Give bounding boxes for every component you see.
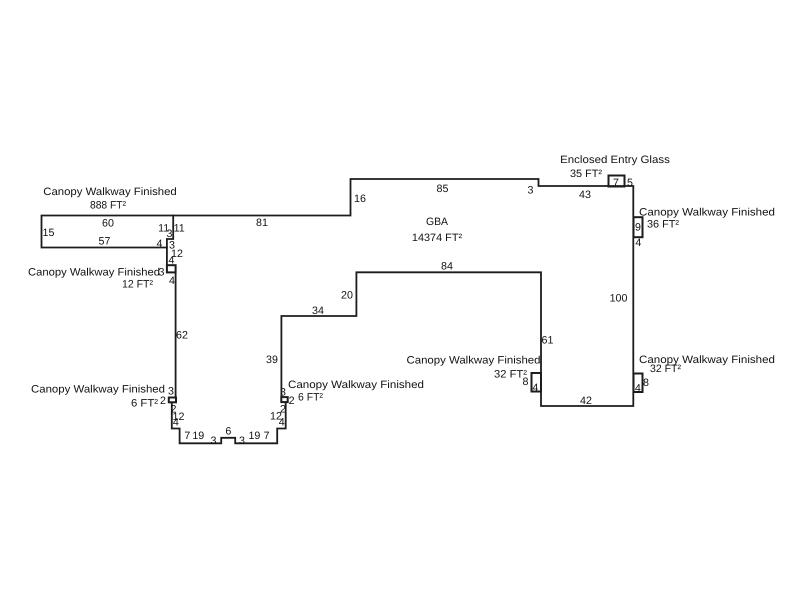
svg-text:100: 100 <box>610 292 628 304</box>
svg-text:32 FT²: 32 FT² <box>650 363 681 375</box>
svg-text:3: 3 <box>528 184 534 196</box>
svg-text:9: 9 <box>635 221 641 233</box>
svg-text:Canopy Walkway Finished: Canopy Walkway Finished <box>28 266 160 278</box>
svg-text:6: 6 <box>225 425 231 437</box>
svg-text:7: 7 <box>184 430 190 442</box>
svg-text:34: 34 <box>312 305 324 317</box>
svg-text:4: 4 <box>532 382 538 394</box>
svg-text:4: 4 <box>173 417 179 429</box>
svg-text:60: 60 <box>102 217 114 229</box>
svg-text:12 FT²: 12 FT² <box>122 278 153 290</box>
svg-text:61: 61 <box>542 334 554 346</box>
svg-text:84: 84 <box>441 260 453 272</box>
svg-text:Canopy Walkway Finished: Canopy Walkway Finished <box>31 383 165 395</box>
svg-text:57: 57 <box>99 235 111 247</box>
svg-text:3: 3 <box>239 435 245 447</box>
svg-text:4: 4 <box>279 416 285 428</box>
svg-text:3: 3 <box>159 266 165 278</box>
svg-text:5: 5 <box>627 177 633 189</box>
svg-text:15: 15 <box>43 227 55 239</box>
svg-text:7: 7 <box>613 177 619 189</box>
svg-text:7: 7 <box>264 430 270 442</box>
svg-text:16: 16 <box>354 193 366 205</box>
svg-text:Enclosed Entry Glass: Enclosed Entry Glass <box>560 154 670 166</box>
svg-text:8: 8 <box>643 377 649 389</box>
svg-text:3: 3 <box>280 386 286 398</box>
svg-text:8: 8 <box>523 376 529 388</box>
svg-text:4: 4 <box>169 255 175 267</box>
svg-text:85: 85 <box>437 183 449 195</box>
svg-text:Canopy Walkway Finished: Canopy Walkway Finished <box>288 379 424 391</box>
svg-text:GBA: GBA <box>426 216 449 228</box>
svg-text:11: 11 <box>174 222 185 234</box>
svg-text:Canopy Walkway Finished: Canopy Walkway Finished <box>639 206 775 218</box>
svg-text:62: 62 <box>176 329 188 341</box>
svg-text:Canopy Walkway Finished: Canopy Walkway Finished <box>43 186 177 198</box>
svg-text:Canopy Walkway Finished: Canopy Walkway Finished <box>407 354 541 366</box>
svg-text:36 FT²: 36 FT² <box>647 218 679 230</box>
svg-text:4: 4 <box>169 275 175 287</box>
svg-text:4: 4 <box>635 382 641 394</box>
svg-text:4: 4 <box>157 238 163 250</box>
svg-text:20: 20 <box>341 289 353 301</box>
svg-text:3: 3 <box>211 435 217 447</box>
svg-text:4: 4 <box>635 237 641 249</box>
svg-text:2: 2 <box>289 395 295 407</box>
svg-text:3: 3 <box>167 228 173 240</box>
svg-text:81: 81 <box>256 217 268 229</box>
svg-text:3: 3 <box>168 385 174 397</box>
svg-text:43: 43 <box>579 189 591 201</box>
svg-text:42: 42 <box>580 395 592 407</box>
svg-text:35 FT²: 35 FT² <box>570 168 602 180</box>
svg-text:19: 19 <box>248 430 260 442</box>
svg-text:6 FT²: 6 FT² <box>131 397 158 409</box>
svg-text:6 FT²: 6 FT² <box>298 391 323 403</box>
svg-text:39: 39 <box>266 354 278 366</box>
svg-text:2: 2 <box>160 395 166 407</box>
svg-text:19: 19 <box>192 430 204 442</box>
svg-text:888 FT²: 888 FT² <box>90 199 126 211</box>
svg-text:14374 FT²: 14374 FT² <box>412 232 463 244</box>
